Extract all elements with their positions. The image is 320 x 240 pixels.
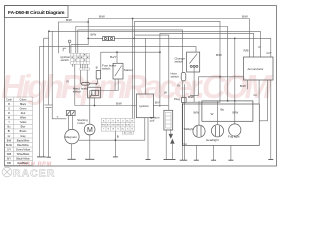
svg-text:Gr: Gr	[8, 135, 11, 138]
wire coil ground	[165, 130, 167, 159]
wire h5 twin to ignition coil	[134, 35, 169, 110]
switch D terminal	[68, 40, 71, 43]
wire change switch drop	[193, 67, 195, 102]
svg-text:Bu: Bu	[221, 107, 225, 111]
starting motor M1	[84, 124, 95, 135]
wire annunciator stub	[247, 80, 249, 89]
wire ignition switch riser D	[71, 19, 88, 45]
svg-text:G/Y: G/Y	[267, 51, 272, 55]
wire foot brake feed	[101, 52, 160, 70]
hand brake switch SW4 box	[88, 87, 101, 98]
node dot hand brake BW	[94, 105, 96, 107]
svg-text:RACER: RACER	[13, 168, 55, 179]
wire magneto to CDI	[79, 118, 145, 141]
wire resistor right	[89, 83, 96, 85]
wire taillight feed	[198, 101, 200, 125]
svg-text:W: W	[211, 112, 214, 116]
headlight lamp L2	[211, 125, 223, 137]
capacitor C1	[44, 105, 52, 108]
color code table	[5, 97, 33, 165]
hand brake switch contacts	[90, 90, 99, 97]
node dot collector Z	[219, 76, 221, 78]
svg-text:Br: Br	[8, 130, 11, 133]
svg-text:B2: B2	[124, 133, 126, 135]
wire headlight feed	[217, 101, 219, 125]
node dot h1b riser join	[87, 21, 89, 23]
node dot fog lamp	[234, 100, 236, 102]
svg-text:W: W	[112, 129, 114, 131]
wire annunciator right drop	[259, 80, 267, 121]
ground symbols	[37, 157, 273, 160]
node dot fuse twin	[133, 38, 135, 40]
node dot fuse junction	[87, 38, 89, 40]
svg-text:B/W: B/W	[216, 53, 222, 57]
change switch arm	[189, 54, 197, 64]
svg-text:switch: switch	[171, 75, 180, 79]
wire CDI to coil	[154, 105, 169, 107]
hand brake resistor R1	[82, 83, 90, 86]
magneto connector pair	[66, 111, 75, 116]
ground taillight	[194, 159, 199, 161]
svg-text:B/W: B/W	[99, 15, 105, 19]
svg-text:Gr: Gr	[131, 124, 133, 127]
node dot fog tap	[234, 38, 236, 40]
wire plug down	[182, 102, 184, 160]
svg-text:M: M	[87, 127, 93, 134]
svg-text:FA-D50-B Circuit Diagram: FA-D50-B Circuit Diagram	[8, 10, 65, 16]
change switch terminals	[190, 65, 198, 67]
ground CDI	[146, 159, 151, 161]
wire table ground lead	[114, 131, 116, 157]
svg-text:switch: switch	[61, 58, 70, 62]
svg-text:Gr: Gr	[184, 142, 187, 146]
wire magneto inputs	[69, 116, 73, 130]
svg-text:R: R	[8, 112, 10, 115]
spark plug gap arrows	[169, 129, 174, 152]
ground right bus	[268, 159, 273, 161]
svg-text:B/W: B/W	[7, 139, 12, 142]
wire left ground lead 2	[44, 38, 49, 157]
svg-text:Brown: Brown	[20, 130, 27, 133]
svg-text:R/B: R/B	[244, 48, 249, 52]
connector table	[101, 119, 134, 135]
wire resistor left	[81, 83, 82, 85]
svg-text:Black: Black	[20, 103, 27, 106]
node dot h1a twin riser	[132, 18, 134, 20]
svg-text:B/W: B/W	[233, 110, 239, 114]
ground foglight	[228, 159, 233, 161]
svg-text:Headlight: Headlight	[206, 138, 219, 142]
svg-text:White: White	[20, 117, 27, 120]
svg-text:B/W: B/W	[188, 95, 194, 99]
title box	[5, 6, 69, 18]
svg-text:HighRpmRacer.COM: HighRpmRacer.COM	[1, 68, 274, 105]
wire h6 capacitor bus to annunciator	[49, 31, 261, 57]
svg-text:G/Y: G/Y	[7, 148, 12, 151]
ground left 1	[37, 156, 42, 158]
foot brake switch SW2	[96, 71, 100, 79]
wire spark ground	[171, 152, 173, 159]
svg-text:B/W: B/W	[66, 18, 72, 22]
starter switch SW3	[113, 63, 123, 79]
switch connector strip	[80, 68, 90, 70]
node dot kill riser	[159, 51, 161, 53]
svg-text:Plug: Plug	[174, 97, 180, 101]
svg-text:switch: switch	[175, 59, 184, 63]
svg-text:R/B: R/B	[7, 162, 11, 165]
svg-text:Black/White: Black/White	[17, 139, 30, 142]
wire capacitor lead	[48, 31, 50, 105]
wire D to switch grid	[70, 43, 71, 54]
color code table text	[6, 98, 30, 165]
svg-text:Bu/Y: Bu/Y	[110, 55, 117, 59]
svg-text:switch: switch	[73, 89, 82, 93]
svg-text:Fog light: Fog light	[228, 135, 240, 139]
wire B/W bus h1b	[58, 22, 88, 53]
svg-text:Green: Green	[20, 108, 27, 111]
ground magneto	[68, 158, 76, 160]
wire fuse bus to right ground	[88, 38, 271, 57]
svg-text:Bu/W: Bu/W	[6, 144, 13, 147]
foglight lamp L3	[229, 124, 241, 136]
svg-text:Gray: Gray	[20, 135, 26, 138]
annunciator box	[244, 57, 274, 80]
outer border	[5, 6, 277, 166]
svg-text:Yellow: Yellow	[20, 121, 27, 124]
ground plug wire	[180, 159, 188, 161]
wire foot brake lower	[96, 79, 98, 84]
svg-text:Bu: Bu	[126, 120, 128, 122]
svg-text:motor: motor	[77, 121, 85, 125]
wire h2 switch to lamp box	[76, 27, 228, 101]
svg-text:Blue: Blue	[21, 126, 26, 129]
wire CDI feed twin riser 1	[132, 19, 134, 119]
svg-text:B: B	[117, 135, 119, 139]
wire CDI ground	[147, 118, 149, 160]
watermark HighRpmRacer.COM	[1, 68, 274, 105]
wire Gr down	[184, 84, 186, 160]
wire starter stub	[114, 79, 116, 91]
wire CDI feed twin riser 2	[133, 21, 135, 118]
wire left ground lead 1	[38, 47, 40, 157]
lamp inner box	[202, 101, 253, 121]
svg-text:coil: coil	[150, 119, 155, 123]
svg-text:B/W: B/W	[91, 33, 97, 37]
svg-text:B/W: B/W	[102, 125, 106, 127]
svg-text:Y: Y	[57, 115, 59, 119]
wire h10 to change switch	[39, 47, 196, 53]
svg-text:B/W: B/W	[116, 101, 122, 105]
svg-text:Bu: Bu	[122, 129, 124, 131]
wire starter riser	[116, 52, 118, 63]
wire switch output stubs	[73, 64, 88, 105]
wire D1 kill riser	[159, 33, 161, 107]
svg-text:B/W: B/W	[194, 110, 200, 114]
svg-text:B: B	[96, 66, 98, 70]
svg-text:Green/Yellow: Green/Yellow	[16, 148, 30, 151]
svg-text:Black/Yellow: Black/Yellow	[16, 158, 30, 161]
wire h1c twin collector	[134, 21, 220, 102]
ground left 2	[41, 156, 46, 158]
svg-text:Code: Code	[6, 98, 12, 101]
wire B/W to CDI	[75, 105, 137, 107]
svg-text:B3: B3	[130, 133, 132, 135]
wire foglight feed	[234, 101, 236, 124]
svg-text:B/W: B/W	[242, 15, 248, 19]
svg-text:Colour: Colour	[19, 98, 26, 101]
wire fog lamp feed	[234, 38, 236, 101]
svg-text:Starter: Starter	[124, 68, 133, 72]
wire h3 switch to horn	[78, 30, 183, 73]
svg-text:Gr: Gr	[254, 93, 257, 97]
wire kill to annunciator	[190, 77, 244, 96]
wire motor ground	[89, 135, 91, 159]
wire magneto ground	[70, 144, 72, 160]
horn button SW5	[181, 72, 186, 81]
CDI unit ignition box	[136, 94, 153, 118]
fuse F1	[103, 37, 115, 41]
ground table lead	[113, 156, 118, 158]
wire capacitor bottom lead	[48, 108, 50, 157]
ignition coil T1	[164, 110, 173, 130]
magneto G1	[65, 129, 79, 143]
change switch box	[187, 52, 200, 72]
wire annunciator to lampbox	[258, 80, 260, 104]
svg-text:B/Y: B/Y	[7, 158, 11, 161]
wire horn down	[182, 81, 184, 98]
starter switch arm	[115, 66, 122, 77]
lamp outer box	[182, 104, 259, 146]
svg-text:switch: switch	[102, 66, 111, 70]
ground capacitor	[46, 156, 51, 158]
watermark circle logo	[2, 167, 12, 177]
svg-text:Blue/White: Blue/White	[17, 144, 29, 147]
svg-text:Red: Red	[21, 112, 26, 115]
node dot magneto B junction	[115, 139, 117, 141]
spark plug cap box	[182, 98, 187, 103]
node dot h2 lamp	[227, 100, 229, 102]
node dot starter tap	[116, 51, 118, 53]
svg-text:Gr: Gr	[177, 83, 180, 87]
node dot capacitor junction	[48, 30, 50, 32]
ground headlight	[211, 159, 216, 161]
ground motor	[85, 158, 94, 160]
ignition switch S1 grid	[71, 53, 90, 64]
svg-text:Ignition: Ignition	[139, 104, 149, 108]
svg-text:Magneto: Magneto	[65, 135, 77, 139]
wire B/W top bus h1a	[88, 19, 249, 58]
svg-text:W/B: W/B	[7, 153, 12, 156]
wire Y riser to magneto connector	[52, 31, 66, 119]
svg-text:G: G	[8, 108, 10, 111]
wire starter to motor	[90, 79, 118, 124]
wire CDI top riser	[144, 38, 146, 94]
svg-text:Red/Black: Red/Black	[18, 162, 30, 165]
wire hand brake to BW	[93, 98, 95, 106]
svg-text:Taillight: Taillight	[184, 127, 194, 131]
wire lamp grounds	[196, 145, 231, 160]
ground coil spark	[164, 159, 176, 161]
svg-text:B/Y: B/Y	[155, 100, 160, 104]
svg-text:W: W	[164, 90, 167, 94]
svg-text:W: W	[117, 120, 119, 122]
svg-text:B/W: B/W	[240, 84, 246, 88]
node dot brake junction	[96, 83, 98, 85]
svg-text:Annunciator: Annunciator	[248, 67, 264, 71]
taillight lamp L1	[193, 125, 205, 137]
svg-text:BuW: BuW	[126, 125, 130, 127]
wire D2 to annunciator	[160, 33, 254, 57]
svg-text:White/Black: White/Black	[17, 153, 30, 156]
